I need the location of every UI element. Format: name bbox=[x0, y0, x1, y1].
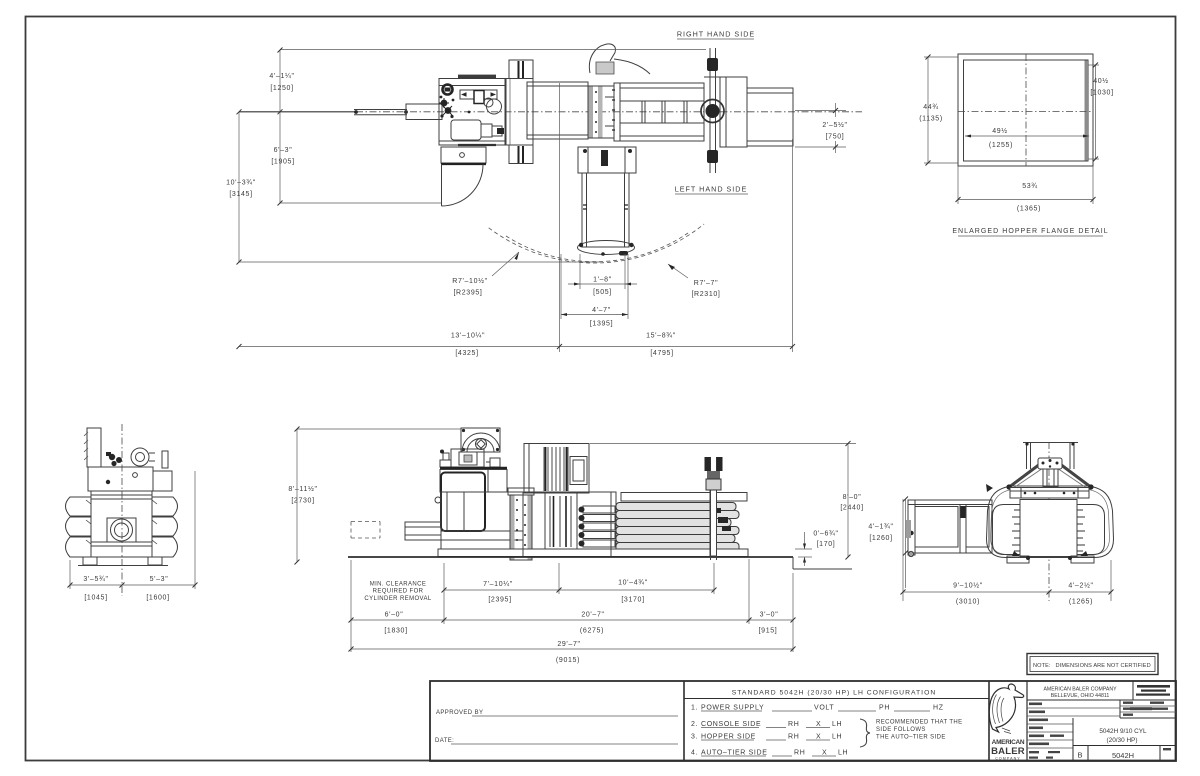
svg-text:[2395]: [2395] bbox=[488, 597, 511, 604]
svg-text:4.: 4. bbox=[691, 750, 698, 757]
svg-text:POWER SUPPLY: POWER SUPPLY bbox=[701, 705, 764, 712]
svg-text:10'–3¾": 10'–3¾" bbox=[226, 180, 256, 187]
svg-text:2.: 2. bbox=[691, 721, 698, 728]
svg-text:R7'–7": R7'–7" bbox=[694, 280, 718, 287]
svg-text:LH: LH bbox=[832, 721, 842, 728]
svg-text:[3145]: [3145] bbox=[229, 191, 252, 198]
svg-text:[750]: [750] bbox=[826, 134, 845, 141]
svg-text:8'–11½": 8'–11½" bbox=[288, 485, 317, 493]
svg-text:BALER: BALER bbox=[991, 746, 1025, 757]
svg-text:[4795]: [4795] bbox=[650, 350, 673, 357]
svg-text:[1905]: [1905] bbox=[271, 159, 294, 166]
svg-text:49½: 49½ bbox=[992, 127, 1008, 135]
svg-text:4'–7": 4'–7" bbox=[592, 307, 611, 314]
svg-text:THE AUTO–TIER SIDE: THE AUTO–TIER SIDE bbox=[876, 735, 946, 741]
svg-text:(20/30 HP): (20/30 HP) bbox=[1107, 737, 1138, 744]
svg-text:4'–1¾": 4'–1¾" bbox=[868, 524, 893, 531]
svg-text:CONSOLE SIDE: CONSOLE SIDE bbox=[701, 721, 761, 728]
svg-text:X: X bbox=[816, 721, 821, 728]
svg-text:[505]: [505] bbox=[593, 289, 612, 296]
svg-text:MIN. CLEARANCE: MIN. CLEARANCE bbox=[370, 582, 427, 588]
svg-text:SIDE FOLLOWS: SIDE FOLLOWS bbox=[876, 727, 926, 733]
svg-text:6'–0": 6'–0" bbox=[385, 612, 404, 619]
svg-text:[R2310]: [R2310] bbox=[691, 291, 720, 298]
svg-text:(9015): (9015) bbox=[556, 657, 580, 664]
svg-text:[1045]: [1045] bbox=[84, 595, 107, 602]
svg-text:LH: LH bbox=[832, 734, 842, 741]
svg-text:[3170]: [3170] bbox=[621, 597, 644, 604]
svg-text:53¾: 53¾ bbox=[1022, 183, 1038, 190]
svg-text:0'–6¾": 0'–6¾" bbox=[813, 531, 838, 538]
svg-text:ENLARGED HOPPER FLANGE DETAIL: ENLARGED HOPPER FLANGE DETAIL bbox=[952, 228, 1108, 235]
svg-text:10'–4¾": 10'–4¾" bbox=[618, 580, 648, 587]
svg-text:4'–2½": 4'–2½" bbox=[1068, 582, 1093, 590]
svg-text:AUTO–TIER SIDE: AUTO–TIER SIDE bbox=[701, 750, 768, 757]
svg-text:REQUIRED FOR: REQUIRED FOR bbox=[373, 589, 424, 595]
svg-text:R7'–10½": R7'–10½" bbox=[452, 277, 488, 285]
svg-text:5'–3": 5'–3" bbox=[150, 576, 169, 583]
svg-text:X: X bbox=[822, 750, 827, 757]
svg-text:(1135): (1135) bbox=[919, 116, 943, 123]
svg-text:13'–10¼": 13'–10¼" bbox=[451, 333, 485, 340]
svg-text:15'–8¾": 15'–8¾" bbox=[646, 333, 676, 340]
svg-text:LH: LH bbox=[838, 750, 848, 757]
svg-text:7'–10¼": 7'–10¼" bbox=[483, 581, 513, 588]
svg-text:1'–8": 1'–8" bbox=[593, 277, 612, 284]
svg-text:[1830]: [1830] bbox=[384, 628, 407, 635]
svg-text:COMPANY: COMPANY bbox=[995, 757, 1021, 761]
svg-text:(3010): (3010) bbox=[956, 599, 980, 606]
svg-text:[1260]: [1260] bbox=[869, 535, 892, 542]
svg-text:RH: RH bbox=[794, 750, 805, 757]
svg-text:[170]: [170] bbox=[817, 541, 836, 548]
svg-text:[2730]: [2730] bbox=[291, 498, 314, 505]
svg-text:5042H: 5042H bbox=[1112, 751, 1134, 760]
svg-text:(1265): (1265) bbox=[1069, 599, 1093, 606]
svg-text:9'–10½": 9'–10½" bbox=[953, 582, 983, 590]
svg-text:NOTE: DIMENSIONS ARE NOT CER: NOTE: DIMENSIONS ARE NOT CERTIFIED bbox=[1033, 663, 1151, 669]
svg-text:4'–1¼": 4'–1¼" bbox=[269, 73, 294, 80]
svg-text:CYLINDER REMOVAL: CYLINDER REMOVAL bbox=[364, 596, 432, 602]
svg-text:8'–0": 8'–0" bbox=[843, 494, 862, 501]
svg-text:VOLT: VOLT bbox=[814, 705, 834, 712]
svg-text:3'–0": 3'–0" bbox=[760, 612, 779, 619]
svg-text:6'–3": 6'–3" bbox=[274, 147, 293, 154]
svg-text:3'–5¾": 3'–5¾" bbox=[83, 576, 108, 583]
svg-text:(1365): (1365) bbox=[1017, 206, 1041, 213]
svg-text:29'–7": 29'–7" bbox=[557, 641, 580, 648]
svg-text:[2440]: [2440] bbox=[840, 505, 863, 512]
svg-text:RH: RH bbox=[788, 734, 799, 741]
svg-text:20'–7": 20'–7" bbox=[581, 612, 604, 619]
svg-text:5042H 9/10 CYL: 5042H 9/10 CYL bbox=[1099, 728, 1147, 735]
svg-text:RECOMMENDED THAT THE: RECOMMENDED THAT THE bbox=[876, 720, 963, 726]
svg-text:[R2395]: [R2395] bbox=[453, 290, 482, 297]
svg-text:X: X bbox=[816, 734, 821, 741]
svg-text:2'–5½": 2'–5½" bbox=[822, 121, 847, 129]
svg-text:3.: 3. bbox=[691, 734, 698, 741]
svg-text:RIGHT HAND SIDE: RIGHT HAND SIDE bbox=[677, 30, 755, 39]
svg-text:DATE:: DATE: bbox=[435, 738, 454, 744]
svg-text:LEFT HAND SIDE: LEFT HAND SIDE bbox=[675, 185, 748, 194]
svg-text:RH: RH bbox=[788, 721, 799, 728]
svg-text:AMERICAN BALER COMPANY: AMERICAN BALER COMPANY bbox=[1043, 687, 1117, 693]
svg-text:[4325]: [4325] bbox=[455, 350, 478, 357]
svg-text:STANDARD 5042H (20/30 HP) LH C: STANDARD 5042H (20/30 HP) LH CONFIGURATI… bbox=[732, 690, 937, 697]
svg-text:HZ: HZ bbox=[933, 705, 944, 712]
svg-text:HOPPER SIDE: HOPPER SIDE bbox=[701, 734, 756, 741]
svg-text:[1250]: [1250] bbox=[270, 85, 293, 92]
svg-text:40½: 40½ bbox=[1093, 77, 1109, 85]
svg-text:[1395]: [1395] bbox=[590, 321, 613, 328]
svg-text:AMERICAN: AMERICAN bbox=[992, 739, 1025, 746]
svg-text:(6275): (6275) bbox=[580, 628, 604, 635]
svg-text:BELLEVUE, OHIO 44811: BELLEVUE, OHIO 44811 bbox=[1051, 693, 1110, 699]
svg-text:44¾: 44¾ bbox=[923, 104, 939, 111]
svg-text:[1030]: [1030] bbox=[1090, 90, 1113, 97]
svg-text:[1600]: [1600] bbox=[146, 595, 169, 602]
svg-text:PH: PH bbox=[879, 705, 890, 712]
svg-text:APPROVED BY: APPROVED BY bbox=[436, 710, 483, 716]
svg-text:(1255): (1255) bbox=[989, 142, 1013, 149]
svg-text:1.: 1. bbox=[691, 705, 698, 712]
svg-text:B: B bbox=[1077, 751, 1082, 760]
svg-text:[915]: [915] bbox=[759, 628, 778, 635]
